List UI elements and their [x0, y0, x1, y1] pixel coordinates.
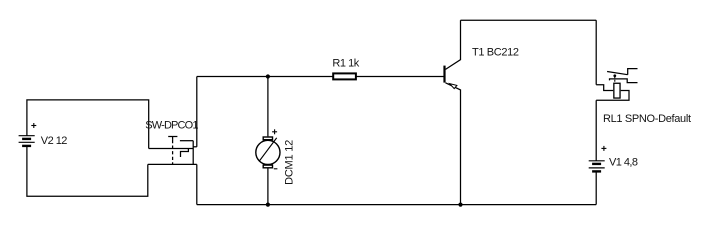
relay RL1: [596, 69, 637, 101]
svg-text:SW-DPCO1: SW-DPCO1: [145, 119, 198, 131]
wire relay to battery V1: [595, 100, 597, 160]
svg-text:T1 BC212: T1 BC212: [472, 46, 519, 58]
wire middle circuit left edge lower: [196, 164, 198, 204]
wire battery V1 to bottom rail: [595, 172, 597, 204]
node emitter bottom junction: [458, 203, 462, 207]
transistor Q1 emitter arrow: [450, 84, 457, 89]
wire V2 loop bottom: [27, 147, 148, 196]
svg-text:R1 1k: R1 1k: [332, 58, 359, 70]
battery V1: [589, 146, 607, 172]
wire relay feed down: [595, 20, 597, 85]
wire motor branch lower: [267, 168, 269, 204]
wire mid rail: [197, 76, 444, 78]
svg-text:V2 12: V2 12: [41, 135, 68, 147]
node motor top junction: [266, 74, 270, 78]
node motor bottom junction: [266, 203, 270, 207]
wire top rail: [461, 19, 597, 21]
transistor Q1 base bar: [443, 66, 445, 83]
svg-text:DCM1 12: DCM1 12: [284, 140, 296, 185]
transistor Q1 collector lead: [446, 20, 461, 69]
switch SW-DPCO1: [148, 137, 197, 165]
motor DCM1: [256, 129, 280, 169]
battery V2: [19, 123, 37, 146]
wire bottom rail: [197, 204, 596, 206]
wire V2 loop top: [27, 100, 149, 149]
svg-text:RL1 SPNO-Default: RL1 SPNO-Default: [603, 113, 691, 125]
svg-text:V1 4,8: V1 4,8: [609, 157, 638, 169]
wire middle circuit left edge upper: [196, 77, 198, 147]
resistor R1: [333, 73, 356, 79]
wire motor branch upper: [267, 77, 269, 137]
transistor Q1 emitter lead: [446, 83, 461, 205]
